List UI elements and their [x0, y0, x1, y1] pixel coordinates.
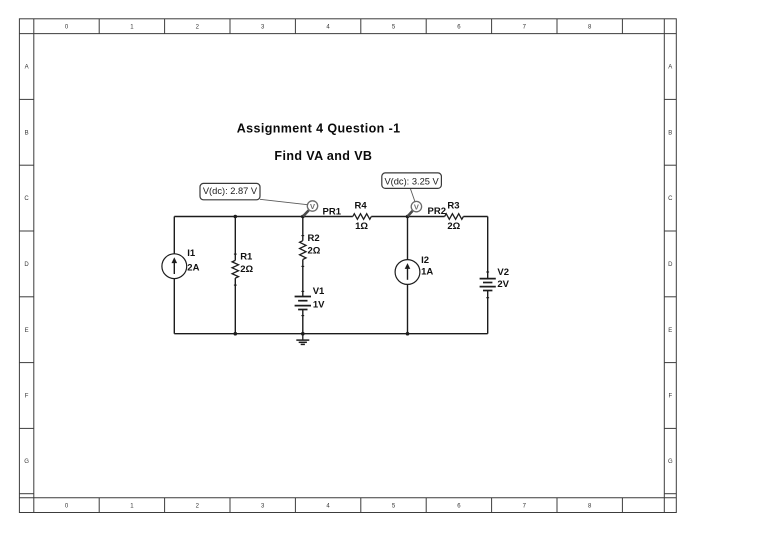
- value 2ohm R2: [308, 246, 321, 257]
- svg-text:F: F: [25, 394, 29, 400]
- svg-text:I2: I2: [421, 255, 429, 266]
- value 2ohm R1: [240, 264, 253, 275]
- svg-text:D: D: [668, 262, 673, 268]
- callout leader PR1: [260, 199, 307, 204]
- probe PR1: [303, 201, 318, 217]
- svg-text:E: E: [668, 328, 672, 334]
- svg-text:2Ω: 2Ω: [308, 246, 321, 257]
- value 2V: [497, 279, 509, 290]
- sheet frame (decorative): [19, 19, 676, 513]
- wire left branch upper: [173, 217, 175, 254]
- svg-text:1V: 1V: [313, 299, 325, 310]
- wire right branch upper: [487, 217, 489, 279]
- junction top node R1: [234, 215, 238, 219]
- svg-text:A: A: [25, 65, 29, 71]
- svg-text:R1: R1: [240, 251, 253, 262]
- resistor R1: [232, 254, 238, 285]
- wire R1 branch: [234, 217, 236, 334]
- resistor R4: [353, 214, 372, 220]
- callout box PR2 value: [382, 173, 442, 189]
- junction bottom ground: [301, 332, 305, 336]
- svg-text:1A: 1A: [421, 266, 433, 277]
- wire right branch lower: [487, 291, 489, 334]
- svg-text:C: C: [24, 196, 29, 202]
- svg-text:Find VA and VB: Find VA and VB: [274, 149, 372, 163]
- svg-text:G: G: [24, 459, 29, 465]
- wire top left segment: [174, 216, 352, 218]
- subtitle text: [274, 149, 372, 163]
- svg-text:I1: I1: [187, 248, 196, 259]
- svg-text:PR1: PR1: [323, 206, 342, 217]
- svg-text:Assignment 4 Question -1: Assignment 4 Question -1: [237, 121, 401, 135]
- svg-text:2Ω: 2Ω: [240, 264, 253, 275]
- svg-text:2Ω: 2Ω: [447, 221, 460, 232]
- wire left branch lower: [173, 279, 175, 334]
- svg-text:G: G: [668, 459, 673, 465]
- callout box PR1 value: [200, 183, 260, 199]
- label I1: [187, 248, 196, 259]
- value 2ohm R3: [447, 221, 460, 232]
- title text: [237, 121, 401, 135]
- svg-text:C: C: [668, 196, 673, 202]
- ground: [296, 334, 309, 345]
- svg-text:B: B: [25, 130, 29, 136]
- junction bottom I2: [406, 332, 410, 336]
- svg-text:V: V: [310, 202, 315, 211]
- svg-text:A: A: [668, 65, 672, 71]
- current source I1: [162, 254, 187, 279]
- wire I2 branch: [407, 217, 409, 334]
- svg-text:R3: R3: [447, 200, 459, 211]
- wire top middle segment: [371, 216, 444, 218]
- label R4: [355, 200, 368, 211]
- current source I2: [395, 260, 420, 285]
- svg-text:R2: R2: [308, 233, 320, 244]
- value 2A: [187, 263, 199, 274]
- wire R2/V1 branch: [302, 217, 304, 334]
- label PR1: [323, 206, 342, 217]
- svg-text:R4: R4: [355, 200, 368, 211]
- battery V1: [295, 291, 311, 315]
- svg-text:F: F: [668, 394, 672, 400]
- label V2: [497, 267, 509, 278]
- callout leader PR2: [410, 188, 415, 201]
- value 1A: [421, 266, 433, 277]
- wire bottom: [174, 333, 487, 335]
- wire top right segment: [463, 216, 487, 218]
- label PR2: [428, 206, 446, 217]
- value 1V: [313, 299, 325, 310]
- svg-text:E: E: [25, 328, 29, 334]
- label R3: [447, 200, 459, 211]
- resistor R2: [300, 236, 306, 267]
- battery V2: [480, 272, 496, 298]
- resistor R3: [445, 214, 464, 220]
- svg-text:PR2: PR2: [428, 206, 446, 217]
- svg-text:V1: V1: [313, 286, 325, 297]
- junction bottom R1: [234, 332, 238, 336]
- svg-text:2V: 2V: [497, 279, 509, 290]
- junction node B (PR2): [406, 215, 410, 219]
- svg-text:V2: V2: [497, 267, 509, 278]
- label V1: [313, 286, 325, 297]
- svg-text:2A: 2A: [187, 263, 199, 274]
- label I2: [421, 255, 429, 266]
- svg-text:V(dc): 2.87 V: V(dc): 2.87 V: [203, 186, 258, 196]
- junction node A (PR1): [301, 215, 305, 219]
- svg-text:1Ω: 1Ω: [355, 221, 368, 232]
- label R2: [308, 233, 320, 244]
- svg-text:V(dc): 3.25 V: V(dc): 3.25 V: [384, 177, 439, 187]
- probe PR2: [408, 201, 422, 216]
- label R1: [240, 251, 253, 262]
- svg-text:B: B: [668, 130, 672, 136]
- svg-text:V: V: [414, 202, 419, 211]
- svg-text:D: D: [24, 262, 29, 268]
- value 1ohm R4: [355, 221, 368, 232]
